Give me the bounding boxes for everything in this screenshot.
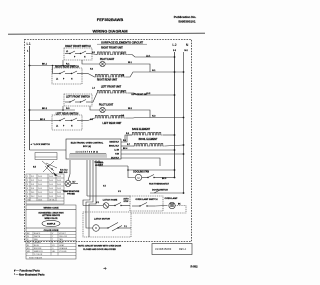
legend box (26, 205, 76, 259)
oven lamp switch box (130, 196, 163, 211)
svg-text:R-502: R-502 (190, 265, 198, 269)
latch cam switch (99, 223, 126, 232)
svg-text:SAMPLE: SAMPLE (47, 223, 56, 226)
svg-text:FAN THERMOSTAT: FAN THERMOSTAT (149, 183, 170, 186)
lock switch arrow (53, 172, 58, 176)
wire switch to right front unit (90, 54, 97, 55)
svg-text:LEFT FRONT SWITCH: LEFT FRONT SWITCH (66, 97, 90, 99)
svg-text:V-2: V-2 (96, 202, 99, 204)
N bus (183, 52, 185, 194)
svg-text:2-04: 2-04 (49, 196, 53, 198)
svg-text:RIGHT REAR SWITCH: RIGHT REAR SWITCH (55, 65, 79, 68)
latch motor assembly box (83, 212, 131, 237)
left front switch assembly box (64, 94, 92, 106)
svg-text:OVEN LAMP SWITCH: OVEN LAMP SWITCH (135, 198, 158, 201)
wire EOC L1 in (121, 149, 175, 151)
svg-text:L-2: L-2 (121, 75, 124, 77)
svg-text:5995380101: 5995380101 (178, 19, 195, 23)
svg-text:2-04: 2-04 (57, 188, 61, 190)
wire door switch to N (150, 192, 184, 194)
wire pilot left (82, 60, 100, 64)
svg-text:-4-: -4- (103, 267, 106, 271)
svg-text:B-7: B-7 (73, 181, 76, 183)
legend color rows (27, 232, 68, 259)
L1 bus (29, 46, 31, 150)
pilot light right (100, 61, 105, 66)
wire fan to L2 (160, 177, 175, 179)
svg-text:◄ * LOCK SWITCH: ◄ * LOCK SWITCH (30, 143, 50, 146)
left rear switch contacts (54, 118, 81, 121)
svg-text:6: 6 (27, 196, 28, 198)
wire left rear unit to N (126, 117, 184, 120)
svg-text:W-2: W-2 (31, 196, 34, 198)
wire pilot left to N join (105, 110, 150, 118)
wire EOC N in (121, 153, 184, 155)
wire latch home right with blade (109, 203, 130, 206)
svg-text:REV A: REV A (179, 248, 186, 251)
right front switch assembly box (64, 48, 92, 60)
svg-text:AUTO: AUTO (123, 197, 129, 200)
svg-text:V-1: V-1 (100, 164, 103, 166)
svg-text:2-04: 2-04 (49, 184, 53, 186)
wire L1 bus to left rear switch (30, 110, 55, 121)
svg-text:R-1: R-1 (31, 176, 34, 178)
svg-text:2: 2 (27, 180, 28, 182)
svg-text:LBL: LBL (52, 251, 55, 253)
svg-text:18 GA: 18 GA (49, 199, 55, 202)
svg-text:R-6: R-6 (123, 140, 126, 142)
fan switch (142, 175, 160, 178)
right rear unit element coils (95, 74, 126, 77)
wire L1 to left front switch (30, 109, 76, 111)
right rear switch assembly box (52, 68, 82, 84)
wire switch to right rear unit (81, 73, 88, 75)
svg-text:VIOLET: VIOLET (59, 233, 67, 235)
wire right rear unit to N (126, 72, 184, 77)
svg-text:2-04: 2-04 (38, 184, 42, 186)
svg-text:2-04: 2-04 (57, 176, 61, 178)
svg-text:SURFACE ELEMENTS CIRCUIT: SURFACE ELEMENTS CIRCUIT (101, 40, 143, 44)
svg-text:2-04: 2-04 (57, 180, 61, 182)
legend sample oval (42, 220, 60, 226)
svg-text:L1: L1 (66, 51, 68, 53)
wire switch to left rear unit (81, 120, 88, 122)
svg-text:4: 4 (27, 188, 28, 190)
right front unit element coils (97, 52, 128, 55)
legend color grid (26, 232, 76, 256)
svg-text:L1: L1 (56, 126, 58, 128)
wire oven lamp to N (131, 206, 186, 214)
svg-text:2-04: 2-04 (38, 176, 42, 178)
header rule (8, 33, 205, 34)
left rear switch assembly box (52, 115, 82, 130)
svg-text:Publication No.: Publication No. (174, 15, 197, 19)
svg-text:L1: L1 (27, 42, 31, 46)
right front switch contacts (65, 51, 90, 54)
svg-text:BROIL RLY: BROIL RLY (109, 145, 120, 147)
svg-text:BK-3: BK-3 (40, 119, 46, 121)
wire probe right (71, 183, 78, 185)
svg-text:L1: L1 (56, 79, 58, 81)
wire pilot left to switch (90, 106, 100, 110)
svg-text:BK-4: BK-4 (123, 147, 127, 150)
svg-text:1: 1 (27, 176, 28, 178)
svg-text:PILOT LIGHT: PILOT LIGHT (99, 104, 114, 106)
svg-text:RED: RED (34, 239, 39, 241)
svg-text:2 COLOR: 2 COLOR (34, 254, 43, 256)
EOC electronic oven control box (66, 139, 121, 159)
svg-text:RIGHT FRONT SWITCH: RIGHT FRONT SWITCH (65, 46, 91, 48)
svg-text:R-2: R-2 (31, 180, 34, 182)
wire bake element left (125, 135, 132, 142)
svg-text:WIRE COLOR: WIRE COLOR (45, 218, 59, 220)
svg-text:R-7: R-7 (127, 144, 130, 146)
svg-text:WIRING DIAGRAM: WIRING DIAGRAM (92, 29, 128, 34)
svg-text:DLB RLY: DLB RLY (111, 157, 120, 159)
wire harness to L2 mid (128, 169, 175, 171)
svg-text:BK-2: BK-2 (42, 108, 48, 110)
svg-text:V-3: V-3 (118, 191, 121, 193)
svg-text:R-3: R-3 (31, 184, 34, 186)
svg-text:BROWN: BROWN (34, 248, 42, 250)
wire harness to lamp switch box (87, 195, 130, 197)
svg-text:LEFT FRONT SW: LEFT FRONT SW (131, 94, 147, 96)
svg-text:BL: BL (27, 245, 29, 247)
part number box (152, 244, 192, 255)
svg-text:GRAY: GRAY (59, 244, 65, 247)
svg-text:2-04: 2-04 (38, 188, 42, 190)
wire latch area verticals (126, 227, 131, 229)
svg-text:N IN: N IN (115, 153, 119, 155)
svg-text:H-3: H-3 (90, 119, 93, 121)
svg-text:N: N (186, 43, 189, 47)
svg-text:L2: L2 (172, 43, 176, 47)
svg-text:PILOT LIGHT: PILOT LIGHT (100, 59, 115, 61)
main diagram dashed border (25, 40, 192, 242)
svg-text:2-04: 2-04 (49, 188, 53, 190)
svg-text:BROIL ELEMENT: BROIL ELEMENT (139, 139, 158, 141)
svg-text:2-04: 2-04 (38, 196, 42, 198)
svg-text:2-04: 2-04 (38, 192, 42, 194)
svg-text:W: W (27, 236, 29, 238)
wire code labels sprinkle (90, 52, 166, 228)
wire broil element to N (165, 145, 184, 146)
svg-text:L1 IN: L1 IN (114, 149, 119, 151)
svg-text:TEMPERATURE: TEMPERATURE (63, 190, 80, 193)
broil element coils (134, 143, 165, 146)
latch home switch (103, 203, 109, 209)
svg-text:W BK TRACER: W BK TRACER (29, 256, 43, 259)
svg-text:LETTERS DENOTE: LETTERS DENOTE (42, 215, 61, 217)
svg-text:R-4: R-4 (31, 188, 34, 190)
bake element coils (132, 132, 163, 135)
wire EOC dlb rly (121, 158, 160, 166)
wire pilot right to N join (105, 64, 150, 72)
svg-text:2-04: 2-04 (49, 192, 53, 194)
svg-text:L-4: L-4 (121, 90, 124, 93)
legend header (26, 209, 76, 211)
svg-text:WIRING CODE: WIRING CODE (43, 208, 59, 210)
svg-text:WHITE: WHITE (34, 236, 41, 238)
svg-text:2004: 2004 (38, 200, 42, 202)
svg-text:TAN: TAN (59, 238, 63, 241)
svg-text:M: M (95, 227, 97, 230)
svg-text:PINK: PINK (59, 242, 64, 244)
svg-text:L-3: L-3 (92, 88, 95, 90)
L2 bus (174, 52, 176, 178)
cooling fan motor (135, 174, 141, 180)
wire color table (26, 174, 64, 204)
svg-text:ELECTRONIC OVEN CONTROL: ELECTRONIC OVEN CONTROL (71, 142, 104, 144)
wire L1 to right front switch (30, 65, 76, 67)
svg-text:W-1: W-1 (31, 192, 34, 194)
door switch blade (154, 190, 160, 193)
wire EOC bake rly to bake element (121, 135, 132, 142)
svg-text:LATCH HOME: LATCH HOME (103, 199, 118, 202)
svg-text:MAROON: MAROON (34, 250, 43, 253)
svg-text:# — Functional Parts: # — Functional Parts (14, 269, 40, 273)
svg-text:BLACK: BLACK (34, 232, 41, 235)
left front unit element coils (97, 90, 128, 93)
svg-text:Y-1: Y-1 (124, 226, 127, 228)
wire color table cell text (27, 176, 61, 201)
svg-text:PROBE: PROBE (67, 194, 75, 196)
svg-text:LEFT REAR UNIT: LEFT REAR UNIT (103, 122, 122, 125)
svg-text:BK-5: BK-5 (162, 178, 166, 180)
svg-text:N.O. B-2: N.O. B-2 (60, 169, 67, 171)
wire switch to left front unit (90, 93, 97, 102)
svg-text:OVEN LAMP: OVEN LAMP (164, 197, 178, 200)
svg-text:GREEN: GREEN (34, 242, 41, 244)
svg-text:H-2: H-2 (90, 69, 93, 71)
svg-text:CLOSED AND DOOR UNLOCKED: CLOSED AND DOOR UNLOCKED (83, 248, 116, 251)
EOC harness wires down (70, 160, 128, 237)
wire bake element to L2 (163, 134, 175, 136)
svg-text:* — Non-Illustrated Parts: * — Non-Illustrated Parts (14, 272, 45, 276)
left front switch contacts (65, 100, 90, 103)
svg-text:LT BLUE: LT BLUE (59, 251, 67, 253)
svg-text:2-04: 2-04 (49, 180, 53, 182)
svg-text:FEF352BAWB: FEF352BAWB (97, 17, 124, 22)
svg-text:#30: #30 (27, 200, 30, 202)
wire harness to fan (128, 166, 135, 178)
svg-text:COOLING FAN: COOLING FAN (133, 171, 149, 174)
latch motor (93, 225, 100, 232)
oven lamp (169, 202, 175, 208)
svg-text:LATCH MOTOR: LATCH MOTOR (94, 218, 110, 221)
svg-text:BK-1: BK-1 (42, 64, 48, 66)
svg-text:M: M (137, 176, 139, 180)
svg-text:COLOR CODE: COLOR CODE (44, 230, 59, 232)
wire latch home left (83, 205, 103, 207)
svg-text:3139845083: 3139845083 (155, 247, 172, 251)
svg-text:BAKE RLY: BAKE RLY (110, 140, 120, 143)
legend color code header (26, 227, 76, 229)
svg-text:DOOR SWITCH: DOOR SWITCH (152, 189, 168, 191)
oven lamp switch contacts (132, 203, 155, 207)
svg-text:5: 5 (27, 192, 28, 194)
temperature probe (65, 181, 71, 187)
wire L1 bus segment to right rear switch (53, 66, 55, 74)
svg-text:H-1: H-1 (92, 52, 95, 54)
wire left front unit to L2 (128, 93, 175, 95)
svg-text:EOC (#): EOC (#) (83, 146, 91, 148)
lock switch mechanism (42, 161, 57, 174)
pilot light left (100, 107, 105, 112)
svg-text:L-1: L-1 (121, 53, 124, 55)
svg-text:2-04: 2-04 (57, 184, 61, 186)
svg-text:NOTE: CIRCUIT SHOWN WITH OVEN: NOTE: CIRCUIT SHOWN WITH OVEN DOOR (78, 245, 122, 247)
left rear unit element coils (95, 115, 126, 118)
heading SURFACE ELEMENTS CIRCUIT (97, 40, 147, 44)
svg-text:L-5: L-5 (121, 115, 124, 117)
svg-text:ORANGE: ORANGE (59, 247, 68, 250)
svg-text:2-04: 2-04 (57, 192, 61, 194)
wire thermal to probe (68, 174, 70, 180)
svg-text:BAKE ELEMENT: BAKE ELEMENT (132, 128, 151, 131)
svg-text:RIGHT FRONT UNIT: RIGHT FRONT UNIT (101, 48, 123, 50)
svg-text:N-5: N-5 (33, 167, 36, 169)
svg-text:BLUE: BLUE (34, 245, 40, 247)
svg-text:R-5: R-5 (126, 133, 129, 135)
svg-text:LEFT FRONT UNIT: LEFT FRONT UNIT (101, 86, 122, 88)
svg-text:2-04: 2-04 (38, 180, 42, 182)
svg-text:2-04: 2-04 (57, 196, 61, 198)
svg-text:SUGGESTED 1 INCH HIGH: SUGGESTED 1 INCH HIGH (38, 212, 64, 214)
svg-text:2-04: 2-04 (49, 176, 53, 178)
interlock terminal block (35, 153, 57, 160)
svg-text:RIGHT REAR UNIT: RIGHT REAR UNIT (97, 79, 118, 82)
svg-text:STOP: STOP (123, 201, 129, 203)
svg-text:V-5: V-5 (103, 186, 106, 188)
EOC connector pins bottom (70, 154, 106, 158)
wire right front unit to L2 (128, 55, 175, 58)
right rear switch contacts (54, 71, 81, 74)
wire EOC broil rly to broil element (121, 145, 134, 147)
svg-text:3: 3 (27, 184, 28, 186)
wire lamp switch to oven lamp (155, 205, 168, 208)
svg-text:YELLOW: YELLOW (59, 236, 67, 238)
wire L1 bus into EOC (30, 149, 67, 151)
svg-text:LEFT REAR SWITCH: LEFT REAR SWITCH (56, 112, 79, 115)
